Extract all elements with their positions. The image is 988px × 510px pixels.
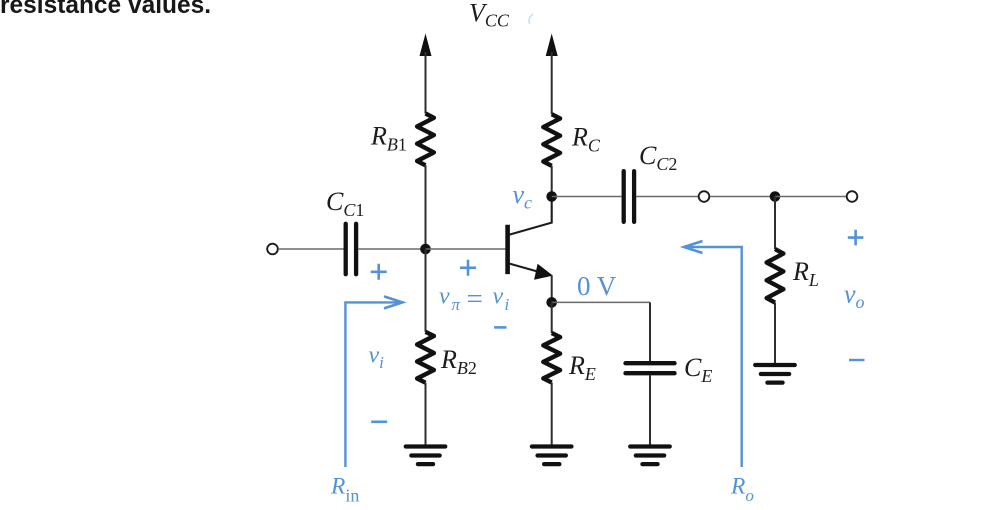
transistor Q1 base bar: [505, 225, 510, 274]
wire RL to ground: [774, 303, 776, 365]
label + (vo): [848, 230, 864, 246]
wire input to CC1: [278, 248, 343, 250]
resistor RC: [543, 114, 560, 166]
capacitor CC1: [344, 224, 348, 274]
label + (vpi): [460, 260, 476, 276]
resistor RB1: [417, 114, 434, 166]
label minus (vo): [849, 359, 865, 361]
wire CE branch down: [649, 302, 651, 361]
VCC supply arrow (RB1 branch): [420, 34, 432, 57]
wire RL node to terminal 2: [775, 196, 846, 198]
wire node down to RL: [774, 197, 776, 250]
transistor Q1 emitter arrowhead: [534, 264, 553, 280]
resistor RB2: [417, 332, 434, 383]
label minus (vpi): [494, 326, 506, 329]
VCC supply arrow (RC branch): [546, 34, 558, 57]
wire RE to ground: [551, 383, 553, 447]
node vc: [546, 191, 557, 202]
stray light mark: [529, 14, 533, 24]
node emitter: [546, 297, 557, 308]
svg-text:0 V: 0 V: [577, 271, 617, 301]
input terminal: [267, 244, 278, 255]
transistor Q1 collector lead: [510, 197, 552, 235]
wire emitter to node: [551, 276, 553, 303]
wire vc node up to RC: [551, 166, 553, 197]
ground (RL): [755, 363, 795, 367]
capacitor CE: [626, 361, 675, 365]
wire base node down to RB2: [425, 249, 427, 332]
wire terminal to RL node: [710, 196, 775, 198]
wire base node to transistor: [426, 248, 506, 250]
resistor RE: [543, 333, 560, 383]
node base junction: [420, 244, 431, 255]
Rin arrow: [345, 302, 401, 467]
output terminal 2: [847, 191, 858, 202]
svg-text:resistance values.: resistance values.: [0, 0, 211, 19]
node RL junction: [770, 191, 781, 202]
transistor Q1 emitter lead: [510, 264, 546, 274]
ground (CE): [630, 444, 670, 448]
wire emitter node down to RE: [551, 302, 553, 333]
wire RB2 to ground: [425, 383, 427, 447]
capacitor CC2: [622, 171, 626, 222]
wire vc to CC2: [552, 196, 622, 198]
label minus (vi): [371, 420, 387, 423]
wire CC1 to base node: [358, 248, 425, 250]
ground (RE): [532, 444, 572, 448]
wire CE to ground: [649, 375, 651, 446]
Ro arrow: [685, 247, 742, 467]
wire emitter node to CE branch: [552, 301, 650, 303]
label + (vi): [371, 264, 387, 280]
ground (RB2): [406, 444, 446, 448]
wire CC2 to terminal: [636, 196, 699, 198]
resistor RL: [767, 249, 784, 303]
wire RB1 to base node: [425, 165, 427, 249]
output terminal 1: [699, 191, 710, 202]
